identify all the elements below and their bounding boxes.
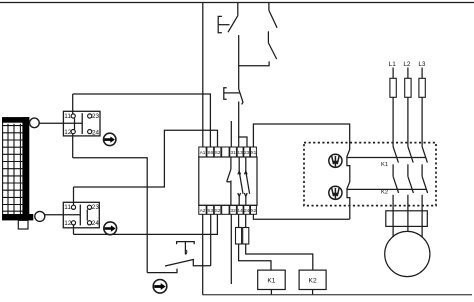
svg-text:L3: L3 [418, 61, 426, 68]
svg-text:32: 32 [231, 208, 237, 213]
svg-text:23: 23 [92, 204, 100, 211]
svg-text:24: 24 [92, 129, 100, 136]
svg-text:X1: X1 [251, 150, 257, 155]
svg-text:14: 14 [238, 208, 244, 213]
svg-text:K2: K2 [381, 189, 388, 195]
svg-text:K1: K1 [381, 162, 388, 168]
svg-text:24: 24 [244, 208, 250, 213]
svg-text:A1: A1 [200, 150, 206, 155]
svg-text:S2: S2 [215, 208, 221, 213]
svg-text:24: 24 [92, 220, 100, 227]
svg-text:11: 11 [64, 113, 71, 120]
svg-text:A2: A2 [200, 208, 206, 213]
svg-text:12: 12 [64, 129, 72, 136]
svg-text:K2: K2 [309, 278, 317, 285]
svg-text:S6: S6 [207, 150, 213, 155]
svg-text:X2: X2 [251, 208, 257, 213]
svg-text:23: 23 [244, 150, 250, 155]
svg-text:L1: L1 [389, 61, 397, 68]
svg-text:12: 12 [64, 220, 72, 227]
svg-text:31: 31 [231, 150, 237, 155]
svg-text:S3: S3 [207, 208, 213, 213]
svg-text:13: 13 [238, 150, 244, 155]
svg-text:11: 11 [64, 204, 71, 211]
svg-text:K1: K1 [267, 278, 275, 285]
svg-text:L2: L2 [403, 61, 411, 68]
svg-text:S2: S2 [215, 150, 221, 155]
svg-text:23: 23 [92, 113, 100, 120]
